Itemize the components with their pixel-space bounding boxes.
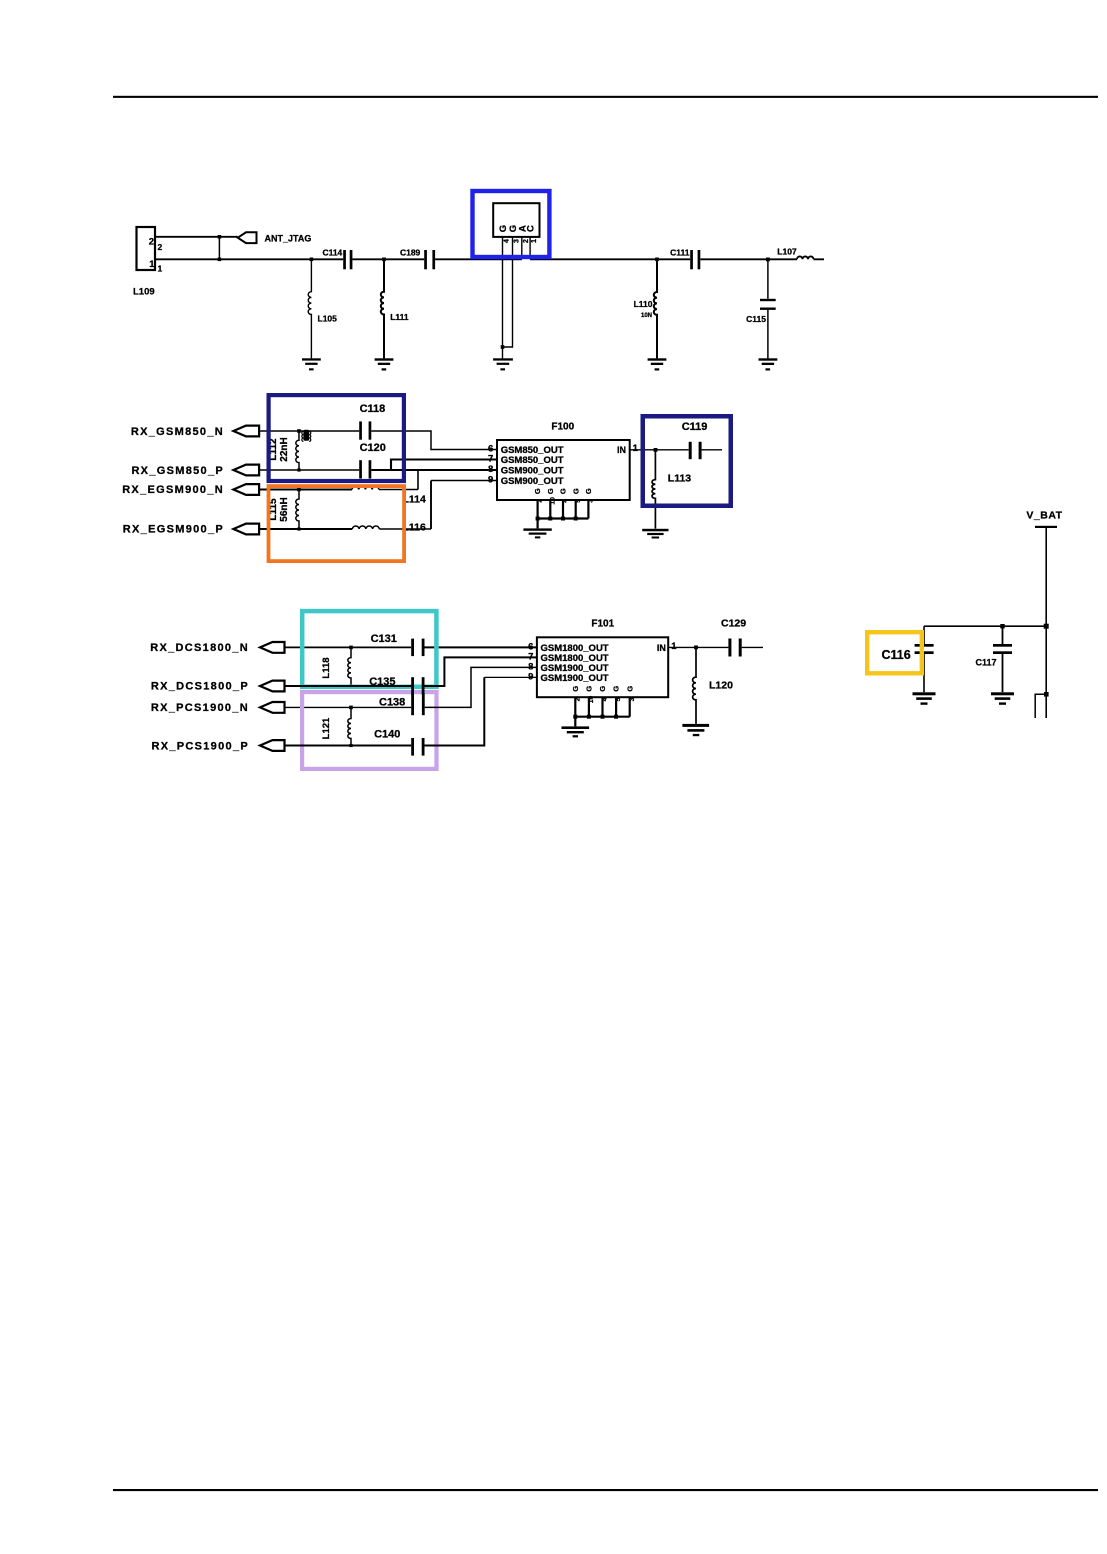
capacitor C118 xyxy=(359,403,385,440)
svg-text:C118: C118 xyxy=(360,403,386,415)
wire RX_PCS1900_P row xyxy=(285,745,412,747)
wire V_BAT branch to C116 C117 xyxy=(924,625,1046,627)
wire corner up to pin9 row xyxy=(430,481,432,530)
navy highlight box around C118 C120 xyxy=(269,395,404,481)
svg-text:8: 8 xyxy=(488,464,493,475)
svg-text:C135: C135 xyxy=(369,676,395,688)
svg-text:7: 7 xyxy=(488,454,493,465)
ground under L111 xyxy=(375,358,394,370)
svg-text:GSM900_OUT: GSM900_OUT xyxy=(501,465,564,476)
F101 pin 9 number xyxy=(528,671,533,682)
wire stub pin2 to pin1 xyxy=(218,237,220,259)
switch pin number 1 xyxy=(531,239,538,243)
ground under L105 xyxy=(302,358,321,370)
node junction at L118 top xyxy=(349,646,353,650)
F100 bottom pin number 2 xyxy=(537,499,544,503)
power net V_BAT xyxy=(1026,510,1062,528)
wire L114 to F100 pin8 xyxy=(379,489,418,491)
inductor L112 22nH xyxy=(268,431,299,470)
svg-text:L113: L113 xyxy=(668,472,692,484)
svg-text:56nH: 56nH xyxy=(279,497,290,521)
svg-text:9: 9 xyxy=(488,475,493,486)
svg-text:L118: L118 xyxy=(321,657,332,678)
capacitor C111 xyxy=(670,247,700,269)
svg-text:2: 2 xyxy=(523,239,530,243)
wire C138 to F101 pin8 xyxy=(425,667,537,707)
svg-text:2: 2 xyxy=(149,236,154,247)
svg-text:G: G xyxy=(584,488,593,494)
F100 pin 9 number xyxy=(488,475,493,486)
wires F100 ground pins to bus xyxy=(538,500,589,528)
svg-text:RX_PCS1900_P: RX_PCS1900_P xyxy=(151,740,249,752)
page bottom rule xyxy=(113,1489,1098,1491)
capacitor C129 xyxy=(721,618,746,657)
capacitor C115 xyxy=(746,259,776,358)
svg-text:ANT_JTAG: ANT_JTAG xyxy=(265,233,312,243)
inductor L116 xyxy=(352,522,426,534)
wire C131 to F101 pin6 xyxy=(425,646,537,648)
svg-text:C117: C117 xyxy=(976,658,997,668)
wire C140 to F101 pin9 xyxy=(425,677,485,745)
F101 bottom pin number 2 xyxy=(574,697,581,701)
F100 pin 8 number xyxy=(488,464,493,475)
capacitor C135 xyxy=(369,676,424,695)
svg-text:RX_DCS1800_P: RX_DCS1800_P xyxy=(151,681,249,693)
svg-text:22nH: 22nH xyxy=(279,437,290,461)
svg-text:GSM900_OUT: GSM900_OUT xyxy=(501,476,564,487)
svg-text:F101: F101 xyxy=(591,618,614,629)
capacitor C131 xyxy=(371,633,425,656)
svg-text:3: 3 xyxy=(514,239,521,243)
svg-text:C116: C116 xyxy=(882,648,911,662)
capacitor C120 xyxy=(359,442,386,478)
ground under C115 xyxy=(759,358,778,370)
svg-text:C114: C114 xyxy=(322,247,342,257)
wire L116 to F100 pin9 xyxy=(379,528,431,530)
yellow highlight box around C116 xyxy=(867,632,922,673)
F101 bottom pin number 4 xyxy=(602,697,609,701)
net label RX_EGSM900_P xyxy=(123,524,259,536)
svg-text:C120: C120 xyxy=(360,442,386,454)
inductor L105 xyxy=(308,259,337,358)
svg-text:C129: C129 xyxy=(721,618,746,630)
svg-text:G: G xyxy=(598,686,607,692)
node junction at L115 top xyxy=(297,488,301,492)
node junction at L121 top xyxy=(349,706,353,710)
F101 bottom pin number 5 xyxy=(615,697,622,701)
wire main antenna line xyxy=(156,258,824,260)
svg-text:F100: F100 xyxy=(551,422,574,433)
blue highlight box around antenna switch xyxy=(473,191,550,257)
node junction on pin1 wire xyxy=(218,258,222,262)
F100 bottom pin number 5 xyxy=(575,499,582,503)
svg-text:G: G xyxy=(625,686,634,692)
svg-text:C138: C138 xyxy=(379,697,405,709)
svg-text:1: 1 xyxy=(531,239,538,243)
net label RX_DCS1800_P xyxy=(151,681,285,693)
svg-text:GSM1900_OUT: GSM1900_OUT xyxy=(541,673,609,684)
inductor L113 xyxy=(652,450,691,529)
capacitor C119 xyxy=(682,421,708,459)
wire switch ground pin 3 xyxy=(503,237,513,347)
inductor L121 xyxy=(321,707,351,745)
F100 bottom pin number 3 xyxy=(588,499,595,503)
wire switch pin 1 to antenna line xyxy=(529,237,531,259)
svg-text:G: G xyxy=(612,686,621,692)
net label RX_DCS1800_N xyxy=(150,642,284,654)
F100 bottom pin number 4 xyxy=(562,499,569,503)
svg-text:RX_PCS1900_N: RX_PCS1900_N xyxy=(151,702,249,714)
svg-text:C140: C140 xyxy=(374,729,400,741)
svg-text:G: G xyxy=(571,488,580,494)
F101 pin 1 number xyxy=(671,641,677,652)
wire C135 to F101 pin7 xyxy=(425,657,537,686)
wire C118 to F100 pin6 xyxy=(371,431,497,450)
node junction at L120 xyxy=(694,646,698,650)
F100 pin 1 number xyxy=(633,443,639,454)
svg-text:2: 2 xyxy=(158,242,163,252)
ground under F101 xyxy=(562,726,590,737)
node junction at L115 bottom xyxy=(297,527,300,530)
page top rule xyxy=(113,96,1098,98)
ground under C116 xyxy=(913,692,936,705)
net label RX_EGSM900_N xyxy=(122,484,259,496)
svg-text:L109: L109 xyxy=(133,287,155,298)
svg-text:RX_GSM850_P: RX_GSM850_P xyxy=(131,465,224,477)
switch pin number 3 xyxy=(514,239,521,243)
wire RX_DCS1800_P row xyxy=(285,685,412,687)
node junction of ground pins xyxy=(501,345,505,349)
pin 1 number xyxy=(158,264,163,274)
capacitor C116 xyxy=(882,626,934,692)
wire RX_EGSM900_N row xyxy=(259,489,352,491)
svg-text:4: 4 xyxy=(504,239,511,243)
wire RX_GSM850_P row xyxy=(259,469,359,471)
node junction at L111 xyxy=(382,258,386,262)
svg-text:1: 1 xyxy=(158,264,163,274)
wire RX_DCS1800_N row xyxy=(285,646,412,648)
capacitor C138 xyxy=(379,693,425,715)
svg-text:RX_EGSM900_N: RX_EGSM900_N xyxy=(122,484,224,496)
svg-text:IN: IN xyxy=(657,643,666,653)
inductor L114 xyxy=(352,487,426,506)
wire L109 pin2 to ANT_JTAG xyxy=(156,236,238,238)
navy highlight box around C119 L113 xyxy=(643,416,731,506)
svg-text:G: G xyxy=(571,686,580,692)
ferrite bead blob on GSM850_N wire xyxy=(302,430,311,442)
svg-text:1: 1 xyxy=(149,259,155,270)
ground under L113 xyxy=(642,529,668,539)
node junction at L112 top xyxy=(297,429,301,433)
capacitor C189 xyxy=(400,247,435,269)
node junction at L118 bottom xyxy=(349,684,352,687)
wire switch ground pin 4 xyxy=(502,237,504,359)
svg-text:RX_DCS1800_N: RX_DCS1800_N xyxy=(150,642,249,654)
wire RX_GSM850_N row xyxy=(259,430,359,432)
node junctions on F100 ground bus xyxy=(536,517,578,521)
inductor L120 xyxy=(693,647,733,724)
pin 2 number xyxy=(158,242,163,252)
capacitor C117 xyxy=(976,626,1013,692)
node junction at L112 bottom xyxy=(297,468,300,471)
F101 pin 8 number xyxy=(528,661,533,672)
wire corner up to pin8 row xyxy=(417,470,419,490)
svg-text:C: C xyxy=(526,225,537,232)
wire RX_PCS1900_N row xyxy=(285,706,412,708)
svg-text:G: G xyxy=(585,686,594,692)
inductor L107 xyxy=(777,247,813,260)
svg-text:10N: 10N xyxy=(641,313,652,319)
svg-text:C189: C189 xyxy=(400,247,421,257)
teal highlight box around C131 C135 xyxy=(302,611,436,687)
svg-text:G: G xyxy=(546,488,555,494)
svg-text:C115: C115 xyxy=(746,314,766,324)
wire C120 to F100 pin7 xyxy=(371,460,497,471)
svg-text:C119: C119 xyxy=(682,421,708,433)
switch pin number 2 xyxy=(523,239,530,243)
wire branch at rail bottom xyxy=(1035,694,1046,718)
svg-text:L121: L121 xyxy=(321,717,332,739)
purple highlight box around C138 C140 xyxy=(302,692,436,769)
wire switch pin 2 to antenna line xyxy=(521,237,523,259)
ground under switch xyxy=(493,358,513,370)
svg-text:RX_EGSM900_P: RX_EGSM900_P xyxy=(123,524,224,536)
net label ANT_JTAG xyxy=(238,232,312,243)
ground under C117 xyxy=(991,692,1014,705)
svg-text:L107: L107 xyxy=(777,247,797,257)
svg-text:L116: L116 xyxy=(403,522,427,534)
ground under F100 xyxy=(523,528,551,538)
F100 pin 6 number xyxy=(488,444,493,455)
net label RX_PCS1900_N xyxy=(151,702,285,714)
svg-text:9: 9 xyxy=(528,671,533,682)
svg-text:L120: L120 xyxy=(709,680,733,692)
node junctions on F101 ground bus xyxy=(573,715,618,719)
F101 bottom pin number 10 xyxy=(588,696,595,704)
F101 pin 6 number xyxy=(528,641,533,652)
net label RX_PCS1900_P xyxy=(151,740,284,752)
filter F101 xyxy=(537,618,668,697)
svg-text:L110: L110 xyxy=(634,299,653,309)
ground under L110 xyxy=(648,358,667,370)
svg-text:G: G xyxy=(559,488,568,494)
svg-text:V_BAT: V_BAT xyxy=(1026,510,1062,522)
node junction at L110 xyxy=(655,258,659,262)
switch pin number 4 xyxy=(504,239,511,243)
node junction at C117 xyxy=(1000,624,1004,628)
filter F100 xyxy=(497,422,630,501)
wires F101 ground pins to bus xyxy=(575,697,629,726)
net label RX_GSM850_P xyxy=(131,465,259,477)
node junction at L121 bottom xyxy=(349,744,352,747)
capacitor C114 xyxy=(322,247,352,269)
svg-text:L111: L111 xyxy=(390,312,409,322)
svg-text:G: G xyxy=(533,488,542,494)
connector L109 xyxy=(133,227,155,298)
inductor L110 xyxy=(634,259,657,358)
wire V_BAT rail down xyxy=(1045,528,1047,718)
net label RX_GSM850_N xyxy=(131,426,259,438)
inductor L111 xyxy=(381,259,409,358)
svg-text:C131: C131 xyxy=(371,633,397,645)
F101 pin 7 number xyxy=(528,651,533,662)
wire pin9 row run F101 xyxy=(484,676,537,678)
node junction at V_BAT rail xyxy=(1044,624,1049,629)
wire pin8 row run xyxy=(391,469,497,471)
node junction on pin2 wire xyxy=(218,235,222,239)
wire RX_EGSM900_P row xyxy=(259,528,352,530)
antenna switch component box xyxy=(493,203,539,237)
F101 bottom pin number 3 xyxy=(629,697,636,701)
svg-text:1: 1 xyxy=(633,443,639,454)
node junction at C115 xyxy=(766,258,770,262)
capacitor C140 xyxy=(374,729,424,756)
node junction at L105 xyxy=(310,258,314,262)
orange highlight box around L115 filter xyxy=(269,486,405,561)
svg-text:IN: IN xyxy=(617,445,626,455)
node junction at V_BAT rail bottom xyxy=(1044,692,1049,697)
wire F101 IN to C129 xyxy=(668,646,763,648)
node junction at L113 xyxy=(654,448,658,452)
F100 bottom pin number 10 xyxy=(549,497,556,505)
svg-text:C111: C111 xyxy=(670,247,690,257)
wire pin9 row run xyxy=(431,480,497,482)
inductor L115 56nH xyxy=(268,490,299,530)
inductor L118 xyxy=(321,647,351,686)
ground under L120 xyxy=(682,724,709,736)
svg-text:L105: L105 xyxy=(318,313,338,323)
svg-text:L114: L114 xyxy=(403,494,427,506)
svg-text:RX_GSM850_N: RX_GSM850_N xyxy=(131,426,224,438)
wire F100 IN to C119 xyxy=(630,449,722,451)
svg-text:GSM850_OUT: GSM850_OUT xyxy=(501,455,564,466)
F100 pin 7 number xyxy=(488,454,493,465)
